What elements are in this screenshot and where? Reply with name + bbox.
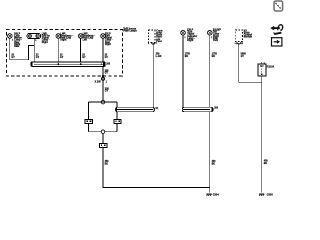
lamp E3 <box>56 34 61 39</box>
rear lamps assembly dashed box E4 <box>7 30 123 76</box>
ground G304 <box>206 194 211 196</box>
wire C2 drop <box>152 43 154 110</box>
svg-text:GY: GY <box>105 91 109 93</box>
lamp E1 <box>8 34 13 39</box>
svg-text:L-GN: L-GN <box>156 56 162 58</box>
wire loop bottom <box>89 131 117 133</box>
svg-text:BK: BK <box>264 163 268 165</box>
svg-text:Rear: Rear <box>14 46 19 48</box>
lamp E5 label <box>105 33 113 46</box>
lamp E7 <box>208 30 213 35</box>
wire fuse to ground <box>261 76 263 193</box>
wire loop left lower <box>88 123 90 131</box>
wire loop left upper <box>88 102 90 119</box>
svg-text:Right: Right <box>187 39 193 42</box>
wire loop right upper <box>116 102 118 119</box>
wire lamp E5 drop <box>102 38 104 62</box>
ground G305 <box>259 194 264 196</box>
svg-text:GY: GY <box>82 57 86 59</box>
wire lamp E2 drop <box>33 39 35 62</box>
svg-text:BK: BK <box>185 56 189 58</box>
icon next arrow box <box>272 38 282 46</box>
svg-text:Module: Module <box>244 37 253 39</box>
lamp E2 label <box>42 33 51 43</box>
wire E1 label <box>11 55 15 59</box>
shield terminator box right <box>114 119 121 123</box>
svg-text:G305: G305 <box>267 194 274 197</box>
wire lamp E4 drop <box>80 38 82 64</box>
connector C2 terminal <box>148 43 158 46</box>
svg-text:Right: Right <box>105 43 111 46</box>
svg-text:GY: GY <box>11 57 15 59</box>
node N1 <box>101 100 105 104</box>
svg-text:Left: Left <box>83 39 87 42</box>
svg-text:GY: GY <box>105 73 109 75</box>
wire bar B ground label <box>212 160 217 165</box>
svg-text:GY: GY <box>105 57 109 59</box>
lamp E3 label <box>60 33 73 41</box>
wire E5 label <box>105 55 109 59</box>
icon jump arrow <box>271 25 283 35</box>
wire BCM drop <box>239 43 262 82</box>
wire lamp E1 drop <box>10 38 34 59</box>
wire lamp E3 drop <box>57 38 59 64</box>
wire E4 label <box>82 55 86 59</box>
lamp E5 <box>101 34 106 39</box>
lamp E4 label <box>83 33 96 41</box>
wire loop top <box>89 101 117 103</box>
node N2 <box>101 130 105 134</box>
shielded bus bar B <box>182 107 213 111</box>
wire fuse-ground label <box>264 160 269 165</box>
BCM K9 dashed box <box>235 30 242 42</box>
wire E6 drop <box>182 35 184 110</box>
wire bar B to ground <box>209 112 211 193</box>
svg-text:GY: GY <box>60 57 64 59</box>
svg-text:BK: BK <box>212 164 216 166</box>
wire E7 label <box>212 54 218 58</box>
wire below X205 label <box>105 88 110 92</box>
wire E7 drop <box>209 35 211 107</box>
wire E3 label <box>60 55 64 59</box>
svg-text:X 205: X 205 <box>95 81 102 83</box>
dual filament lamp E2 <box>27 33 41 38</box>
wire BCM label <box>241 54 247 58</box>
svg-text:GY: GY <box>36 57 40 59</box>
lamp E4 <box>78 34 83 39</box>
fuse F1 stub <box>261 62 263 64</box>
wire E2 label <box>36 55 40 59</box>
svg-text:BK: BK <box>212 56 216 58</box>
lamp E6 <box>181 30 186 35</box>
svg-text:Right: Right <box>60 39 66 42</box>
wire ground run label <box>105 160 110 165</box>
svg-text:G304: G304 <box>213 194 220 197</box>
svg-text:Pass: Pass <box>156 41 162 43</box>
svg-text:F10UA: F10UA <box>267 66 275 69</box>
BCM K9 label <box>244 30 253 38</box>
wire to ground run <box>103 147 210 187</box>
wire loop right lower <box>116 123 118 131</box>
inline connector X205 <box>101 75 104 81</box>
lamp E6 label <box>187 30 197 43</box>
icon resize box <box>274 1 283 11</box>
wire N2 down <box>102 134 104 144</box>
shield terminator box left <box>85 119 92 123</box>
wire SP1 output label <box>105 70 110 74</box>
svg-text:BK: BK <box>105 164 109 166</box>
shield terminator box bottom <box>99 143 107 147</box>
svg-text:Plate Lamps: Plate Lamps <box>123 30 137 33</box>
rear lamps assembly label <box>123 28 137 32</box>
svg-text:Park: Park <box>213 40 219 42</box>
wire C2 label <box>156 54 162 58</box>
splice pack SP1 bus <box>31 62 105 67</box>
lamp E7 label <box>213 30 221 43</box>
wire SP1 output <box>102 66 104 100</box>
lamp E1 label <box>14 33 22 48</box>
connector C2 label <box>156 30 163 43</box>
BCM K9 terminal <box>237 42 241 44</box>
fuse F1 box <box>258 64 266 76</box>
BCM K9 pin labels <box>235 43 244 45</box>
svg-text:Right: Right <box>42 41 48 44</box>
connector C2 dashed box <box>149 30 156 43</box>
wire E6 label <box>185 54 191 58</box>
shielded bus bar A <box>116 107 155 111</box>
svg-text:GY: GY <box>241 56 245 58</box>
